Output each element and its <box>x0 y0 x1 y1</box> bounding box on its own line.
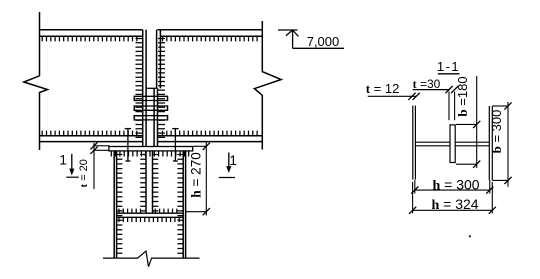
svg-text:1-1: 1-1 <box>437 59 460 74</box>
weld ticks below diaphragm <box>119 217 179 222</box>
dimension h = 270 <box>193 145 206 147</box>
svg-text:b = 300: b = 300 <box>489 110 504 154</box>
left beam bottom flange <box>40 135 143 137</box>
section cut mark 1 left <box>71 154 73 171</box>
column diaphragm <box>117 212 184 214</box>
splice band 2 <box>134 105 167 107</box>
dimension t = 20 <box>94 145 110 147</box>
weld ticks above right beam bottom flange <box>163 131 258 136</box>
weld ticks above diaphragm right panel <box>155 209 177 214</box>
weld ticks under left beam top flange <box>42 36 137 41</box>
section stiffener t=30 b=180 <box>450 125 455 163</box>
section left flange plate t=12 <box>412 106 414 180</box>
svg-text:1: 1 <box>59 151 67 167</box>
weld ticks above left beam bottom flange <box>42 131 137 136</box>
right beam end plate <box>156 30 158 89</box>
weld ticks right of right beam end plate <box>158 39 165 138</box>
svg-text:1: 1 <box>229 152 237 168</box>
right beam break line <box>254 21 281 150</box>
svg-text:h = 270: h = 270 <box>189 152 204 197</box>
section cut mark 1 right <box>228 153 230 169</box>
weld ticks under right beam top flange <box>163 36 258 41</box>
weld ticks right of column web <box>153 155 159 211</box>
column cap plate <box>109 147 193 151</box>
splice band 1 <box>134 95 167 97</box>
weld ticks left of left beam end plate <box>136 39 143 138</box>
svg-text:h = 300: h = 300 <box>432 177 479 194</box>
weld ticks left of column web <box>140 155 146 211</box>
dimension b = 300 <box>507 102 509 187</box>
left beam end plate <box>142 30 144 147</box>
right beam top flange <box>158 29 263 31</box>
column right flange <box>182 151 184 258</box>
left erection bolt <box>127 129 129 161</box>
svg-text:b =180: b =180 <box>455 76 470 116</box>
weld ticks under cap plate <box>111 151 188 157</box>
column left flange <box>113 151 115 258</box>
weld ticks above diaphragm left panel <box>119 209 141 214</box>
dimension b = 180 <box>476 76 478 168</box>
svg-text:7,000: 7,000 <box>307 34 340 49</box>
column web left line <box>145 151 147 213</box>
right beam bottom flange <box>158 135 263 137</box>
left beam break line <box>24 12 48 150</box>
weld ticks inside column right flange <box>177 155 183 254</box>
column web splice plate below bridge <box>153 88 155 146</box>
splice band 3 <box>134 115 167 117</box>
column web right line <box>152 151 154 213</box>
section web <box>415 141 489 143</box>
weld ticks inside column left flange <box>117 155 123 254</box>
elevation level mark 7,000 <box>278 29 298 31</box>
section right flange plate b=300 <box>488 106 490 180</box>
svg-text:t = 20: t = 20 <box>78 159 90 187</box>
svg-text:t = 12: t = 12 <box>366 81 400 96</box>
stray scan dot <box>469 235 471 237</box>
bridge at top of splice gap <box>146 87 157 89</box>
right erection bolt <box>174 129 176 161</box>
left beam top flange <box>40 29 143 31</box>
svg-text:h = 324: h = 324 <box>431 196 478 213</box>
column bottom break line <box>103 251 200 267</box>
dimension h = 324 <box>412 182 414 213</box>
dimension h = 300 <box>414 180 416 194</box>
